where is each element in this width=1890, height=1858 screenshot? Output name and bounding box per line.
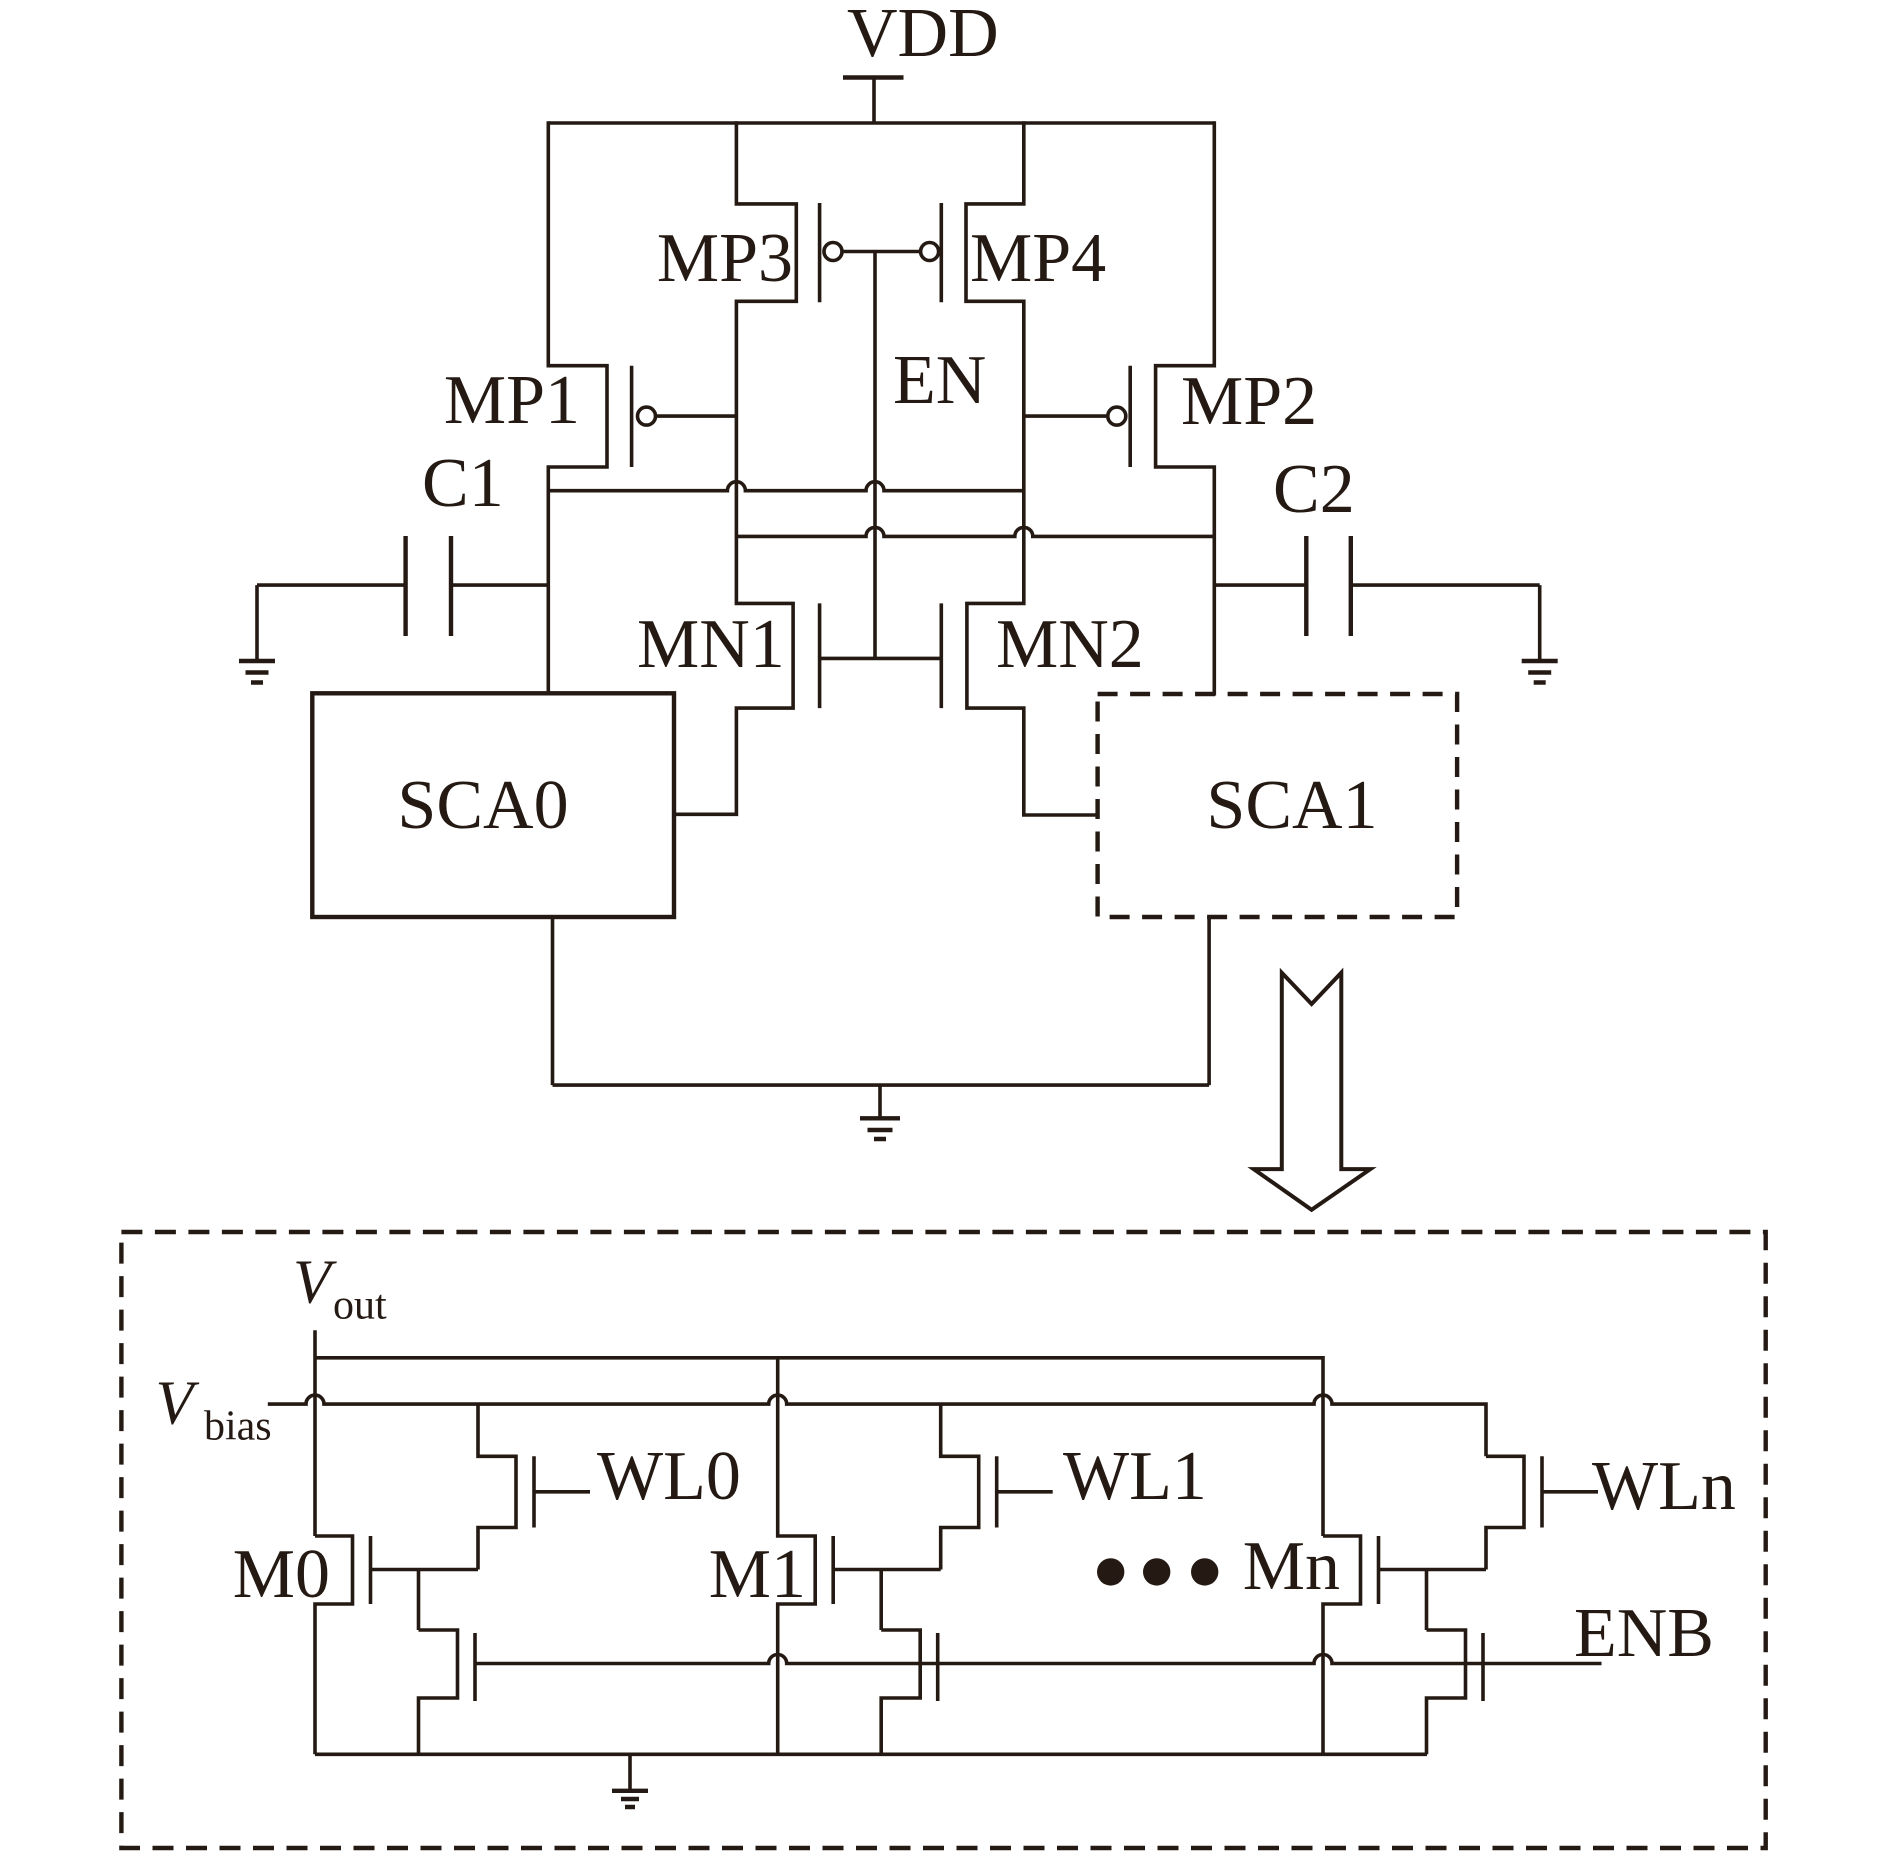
svg-text:MP4: MP4 [970, 220, 1106, 297]
svg-text:MN2: MN2 [996, 606, 1144, 683]
svg-text:MP1: MP1 [444, 362, 580, 439]
svg-text:V: V [293, 1249, 337, 1317]
svg-text:MP3: MP3 [657, 220, 793, 297]
svg-text:bias: bias [204, 1403, 272, 1449]
svg-text:Mn: Mn [1243, 1528, 1340, 1605]
svg-text:C2: C2 [1273, 451, 1355, 528]
svg-text:SCA1: SCA1 [1206, 767, 1377, 844]
svg-text:ENB: ENB [1574, 1595, 1714, 1672]
svg-text:EN: EN [893, 342, 986, 419]
svg-text:VDD: VDD [847, 0, 999, 72]
svg-text:MP2: MP2 [1181, 363, 1317, 440]
svg-text:M1: M1 [709, 1536, 806, 1613]
svg-text:V: V [156, 1369, 200, 1437]
svg-text:M0: M0 [233, 1536, 330, 1613]
svg-text:SCA0: SCA0 [397, 767, 568, 844]
svg-text:out: out [333, 1283, 387, 1329]
svg-text:MN1: MN1 [637, 606, 785, 683]
svg-text:C1: C1 [422, 445, 504, 522]
svg-text:WL1: WL1 [1063, 1438, 1207, 1515]
svg-text:WL0: WL0 [597, 1438, 741, 1515]
svg-text:WLn: WLn [1592, 1448, 1736, 1525]
